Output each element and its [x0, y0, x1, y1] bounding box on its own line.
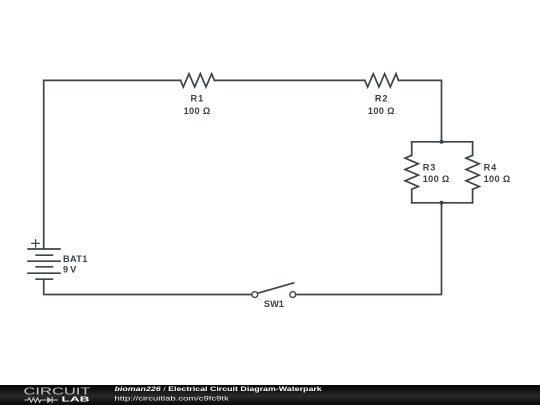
svg-text:bioman226 / Electrical Circuit: bioman226 / Electrical Circuit Diagram-W…	[115, 385, 323, 393]
svg-text:LAB: LAB	[62, 395, 90, 404]
svg-text:http://circuitlab.com/c9fc9tk: http://circuitlab.com/c9fc9tk	[115, 395, 230, 402]
